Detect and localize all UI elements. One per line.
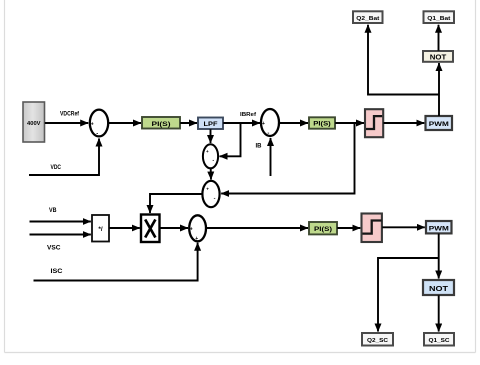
- wire IBRef LPF to SC2 with branch down to S2: [220, 112, 261, 156]
- wire SC1 to PI1: [108, 122, 141, 124]
- output port Q1_SC: [424, 333, 454, 346]
- NOT gate NOT1: [423, 51, 453, 62]
- multiplier block X: [141, 215, 160, 243]
- svg-text:ISC: ISC: [51, 269, 64, 275]
- wire divider to X multiplier: [109, 227, 140, 229]
- sum junction S2: [203, 144, 218, 168]
- svg-text:NOT: NOT: [429, 284, 449, 293]
- sum junction SC2: [261, 109, 279, 137]
- wire NOT1 to Q1_Bat: [438, 25, 440, 51]
- page frame left edge: [4, 0, 6, 353]
- wire S4 to PI3: [206, 227, 308, 229]
- svg-text:LPF: LPF: [204, 121, 218, 128]
- svg-text:VSC: VSC: [47, 246, 61, 252]
- output port Q2_SC: [362, 333, 393, 346]
- svg-text:-: -: [96, 132, 98, 138]
- wire NOT2 to Q1_SC: [438, 295, 440, 331]
- PWM block PWM2: [426, 221, 452, 233]
- sum junction S3: [202, 181, 219, 207]
- relay block R2: [362, 214, 382, 243]
- divide block: [92, 215, 109, 242]
- wire X multiplier to S4: [160, 227, 188, 229]
- page frame bottom edge: [5, 352, 476, 354]
- svg-text:IB: IB: [256, 144, 263, 150]
- svg-text:+: +: [206, 186, 209, 191]
- svg-text:IBRef: IBRef: [240, 112, 256, 118]
- svg-text:Q1_Bat: Q1_Bat: [427, 16, 450, 22]
- node IB label and wire to SC2: [256, 138, 271, 176]
- wire VDCRef 400V to SC1: [45, 112, 88, 124]
- wire SC2 to PI2: [279, 122, 308, 124]
- svg-text:NOT: NOT: [430, 55, 447, 62]
- page frame right edge: [475, 0, 477, 353]
- svg-text:-: -: [212, 158, 214, 164]
- svg-text:+: +: [91, 121, 94, 127]
- wire PI3 to relay R2: [337, 227, 360, 229]
- wire feedback from PI2 output branch down and left into S3: [221, 123, 354, 194]
- output port Q2_Bat: [353, 11, 383, 23]
- relay block R1: [365, 109, 383, 137]
- svg-text:PWM: PWM: [429, 121, 450, 128]
- wire PI2 to relay R1: [335, 122, 364, 124]
- svg-text:+: +: [262, 121, 265, 127]
- svg-text:Q2_Bat: Q2_Bat: [356, 16, 379, 22]
- wire PWM2 down to NOT2 with branch left to Q2_SC: [378, 234, 439, 332]
- PWM block PWM1: [426, 116, 453, 130]
- node VSC label and wire to divider: [30, 235, 91, 252]
- wire S2 to S3: [210, 168, 212, 179]
- sum junction SC1: [90, 110, 108, 138]
- svg-text:VB: VB: [49, 208, 57, 214]
- PI controller block PI2: [309, 117, 335, 128]
- svg-text:PI(S): PI(S): [314, 227, 332, 233]
- svg-text:VDC: VDC: [51, 165, 62, 171]
- svg-text:-: -: [267, 131, 269, 137]
- node ISC label and wire to S4: [34, 243, 198, 281]
- svg-text:+: +: [206, 149, 209, 154]
- svg-text:Q1_SC: Q1_SC: [429, 338, 451, 344]
- wire relay R2 to PWM2: [382, 226, 425, 228]
- svg-text:+: +: [190, 227, 193, 233]
- svg-text:-: -: [214, 195, 216, 201]
- svg-text:400V: 400V: [27, 121, 41, 127]
- svg-text:PI(S): PI(S): [313, 122, 331, 128]
- wire PI1 to LPF: [180, 122, 197, 124]
- wire relay R1 to PWM1: [383, 122, 424, 124]
- svg-text:PWM: PWM: [429, 225, 450, 232]
- svg-text:VDCRef: VDCRef: [60, 112, 80, 118]
- wire PWM1 up to NOT1 with branch left to Q2_Bat: [368, 25, 439, 116]
- sum junction S4: [189, 215, 206, 242]
- svg-text:Q2_SC: Q2_SC: [367, 338, 389, 344]
- low pass filter block LPF: [198, 118, 223, 130]
- wire S3 output left then down into X multiplier: [150, 194, 202, 213]
- wire LPF bottom to S2: [210, 129, 212, 143]
- node VDC label and wire to SC1: [29, 139, 99, 176]
- svg-text:+: +: [195, 236, 198, 242]
- PI controller block PI1: [142, 117, 180, 129]
- NOT gate NOT2: [423, 280, 454, 295]
- source block 400V: [23, 102, 45, 142]
- output port Q1_Bat: [424, 11, 455, 23]
- svg-text:*/: */: [98, 226, 102, 233]
- PI controller block PI3: [309, 222, 337, 234]
- node VB label and wire to divider: [30, 208, 91, 222]
- svg-text:PI(S): PI(S): [152, 121, 171, 128]
